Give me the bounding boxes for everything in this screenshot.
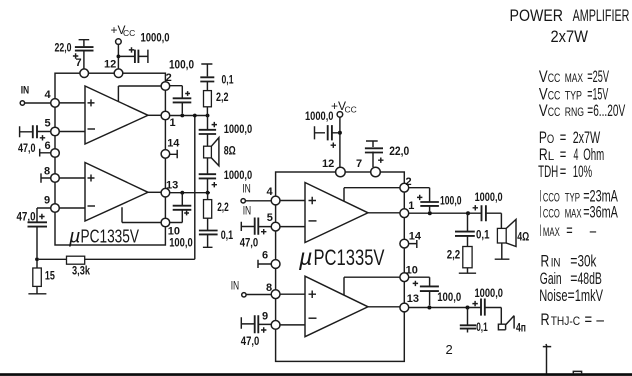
wire A4 output to pin13 xyxy=(368,306,400,308)
svg-text:CC: CC xyxy=(548,105,561,119)
svg-text:12: 12 xyxy=(322,158,334,170)
svg-text:1000,0: 1000,0 xyxy=(224,124,253,136)
svg-text:CC: CC xyxy=(345,104,357,114)
capacitor C6 0,1 zobel top xyxy=(201,64,212,91)
svg-text:=: = xyxy=(566,221,572,240)
capacitor C7 1000,0 output top xyxy=(207,116,209,147)
capacitor C17 1000,0 output R upper xyxy=(468,213,501,228)
pin 1 R xyxy=(400,209,409,218)
svg-text:47,0: 47,0 xyxy=(240,238,259,250)
svg-text:0,1: 0,1 xyxy=(221,230,234,242)
node dot pin1-cap xyxy=(180,114,184,118)
node junction dot on Vcc wire xyxy=(117,55,121,59)
A3 plus input mark xyxy=(309,197,317,204)
node dot pin1-cap R xyxy=(428,211,432,215)
pin 4 R xyxy=(271,196,280,205)
svg-text:µ: µ xyxy=(298,244,312,270)
label spec Icco max xyxy=(540,203,619,222)
svg-text:L: L xyxy=(548,149,555,163)
node dot pin13-zobel xyxy=(206,191,210,195)
resistor R3 2,2 zobel top xyxy=(204,91,212,107)
node dot pin1-zobel R xyxy=(466,211,470,215)
label spec Rthj-c xyxy=(541,310,605,329)
svg-text:100,0: 100,0 xyxy=(440,195,462,207)
svg-text:10%: 10% xyxy=(573,162,592,181)
svg-text:2,2: 2,2 xyxy=(217,202,229,214)
capacitor C12 47,0 at pin9 R xyxy=(241,317,271,329)
svg-text:22,0: 22,0 xyxy=(55,42,72,54)
svg-text:7: 7 xyxy=(356,158,362,170)
wire pin9 to A2 - xyxy=(59,207,85,209)
svg-text:=: = xyxy=(568,286,575,305)
capacitor C16 0,1 zobel R upper xyxy=(467,213,469,246)
pin 13 R xyxy=(400,303,409,312)
label spec RL xyxy=(539,145,604,164)
svg-text:Noise: Noise xyxy=(539,286,567,305)
A1 minus input mark xyxy=(88,128,96,130)
op-amp U1 (µPC1335V #1) chip outline xyxy=(55,73,165,245)
wire pin1 output row xyxy=(170,115,210,117)
svg-text:I: I xyxy=(540,221,542,240)
wire +Vcc to pin12 R xyxy=(339,117,341,167)
svg-text:2x7W: 2x7W xyxy=(551,27,589,46)
svg-text:IN: IN xyxy=(243,205,252,217)
A4 plus input mark xyxy=(309,291,317,299)
svg-text:5: 5 xyxy=(267,212,273,224)
capacitor C13 1000,0 at Vcc R xyxy=(315,126,340,139)
svg-text:5: 5 xyxy=(45,118,51,130)
A4 minus input mark xyxy=(309,317,317,319)
pin 10 R xyxy=(400,273,409,282)
svg-text:22,0: 22,0 xyxy=(389,146,409,158)
op-amp A3 upper triangle xyxy=(305,183,368,243)
svg-text:TYP: TYP xyxy=(565,190,580,204)
node +Vcc supply terminal xyxy=(116,39,122,45)
label spec TDH xyxy=(538,162,592,181)
pin 6 xyxy=(51,149,60,158)
node IN terminal upper xyxy=(241,199,245,203)
wire IN to pin4 xyxy=(25,102,51,104)
pin 13 xyxy=(161,188,170,197)
resistor R2 3,3k horizontal xyxy=(39,258,67,260)
wire antenna mark bottom right xyxy=(543,344,551,374)
pin 6 open stub xyxy=(40,149,51,157)
pin 8 open stub xyxy=(41,173,51,182)
svg-text:30k: 30k xyxy=(578,251,597,270)
resistor R1 15 vertical xyxy=(36,259,38,268)
capacitor C11 47,0 at pin5 R xyxy=(241,222,271,231)
A2 plus input mark xyxy=(88,175,95,182)
svg-text:9: 9 xyxy=(44,195,50,207)
wire pin8 to A2 + xyxy=(59,177,85,179)
wire pin13 output row xyxy=(170,192,210,194)
pin 12 R xyxy=(336,167,346,177)
speaker LS2 4 ohm xyxy=(497,228,506,243)
svg-text:I: I xyxy=(540,203,542,222)
wire IN to pin4 xyxy=(245,200,271,202)
node +Vcc supply terminal R xyxy=(337,112,343,118)
node IN input terminal left xyxy=(20,101,24,105)
svg-text:1000,0: 1000,0 xyxy=(141,32,170,44)
pin 6 R xyxy=(271,260,280,269)
capacitor C20 1000,0 output R lower xyxy=(469,308,502,325)
svg-text:1mkV: 1mkV xyxy=(575,286,604,305)
pin 8 R xyxy=(271,290,280,299)
svg-text:CCO: CCO xyxy=(543,207,560,221)
node junction dot bottom left xyxy=(35,257,39,261)
node dot pin13-zobel R xyxy=(466,306,470,310)
wire pin8 to A4 + xyxy=(280,293,305,295)
pin 14 open stub xyxy=(170,150,177,159)
svg-text:0,1: 0,1 xyxy=(222,74,234,86)
svg-text:8: 8 xyxy=(44,166,50,178)
pin 14 xyxy=(161,150,170,159)
svg-text:Gain: Gain xyxy=(540,269,562,288)
svg-text:IN: IN xyxy=(551,255,561,269)
op-amp A1 upper triangle xyxy=(85,86,148,144)
svg-text:100,0: 100,0 xyxy=(169,237,193,249)
svg-text:1: 1 xyxy=(408,200,414,212)
svg-text:RNG: RNG xyxy=(565,105,584,119)
svg-text:14: 14 xyxy=(409,231,422,243)
svg-text:THJ-C: THJ-C xyxy=(551,314,581,328)
svg-text:10: 10 xyxy=(168,226,180,238)
svg-text:4п: 4п xyxy=(516,323,526,335)
svg-text:PC1335V: PC1335V xyxy=(314,245,385,270)
bottom black bar xyxy=(0,373,632,376)
label spec Gain xyxy=(540,269,602,288)
pin 7 R xyxy=(371,167,381,177)
svg-text:=25V: =25V xyxy=(587,67,609,86)
label spec Imax xyxy=(540,221,597,240)
label spec Icco typ xyxy=(540,186,619,205)
label spec Vcc rng xyxy=(539,101,626,120)
capacitor C18 100,0 pin10 to pin13 R xyxy=(409,277,430,305)
svg-text:47,0: 47,0 xyxy=(17,211,36,223)
capacitor C19 0,1 zobel R lower xyxy=(467,308,469,333)
wire A1 output to pin1 xyxy=(148,114,161,116)
svg-text:MAX: MAX xyxy=(565,71,583,85)
pin 4 xyxy=(51,99,60,108)
label spec Rin xyxy=(541,251,597,270)
svg-text:0,1: 0,1 xyxy=(476,229,490,241)
svg-text:CC: CC xyxy=(548,89,561,103)
svg-text:1: 1 xyxy=(170,117,176,129)
svg-text:2,2: 2,2 xyxy=(447,249,461,261)
label spec Po xyxy=(539,128,600,147)
resistor R4 2,2 zobel bottom xyxy=(207,193,209,201)
svg-text:=: = xyxy=(570,269,577,288)
pin 2 R xyxy=(400,183,409,192)
svg-text:3,3k: 3,3k xyxy=(72,266,90,278)
svg-text:PC1335V: PC1335V xyxy=(81,226,140,247)
svg-text:47,0: 47,0 xyxy=(241,336,259,348)
svg-text:CC: CC xyxy=(123,28,135,38)
wire bottom rail to vertical riser xyxy=(85,116,195,260)
pin 7 xyxy=(80,69,89,78)
svg-text:6: 6 xyxy=(45,140,51,152)
node dot pin1-zobel xyxy=(206,114,210,118)
svg-text:=: = xyxy=(570,251,577,270)
op-amp U2 (µPC1335V #2) chip outline xyxy=(276,172,405,361)
pin 5 xyxy=(51,127,60,136)
capacitor C5 100,0 pin2 to pin1 xyxy=(170,86,183,114)
svg-text:IN: IN xyxy=(21,85,30,97)
pin 6 R open stub xyxy=(258,260,271,268)
svg-text:13: 13 xyxy=(166,179,178,191)
label spec Vcc max xyxy=(539,67,610,86)
svg-text:=36mA: =36mA xyxy=(583,203,618,222)
svg-text:10: 10 xyxy=(406,264,418,276)
svg-text:8: 8 xyxy=(266,282,272,294)
svg-text:R: R xyxy=(541,310,550,329)
svg-text:4: 4 xyxy=(45,89,52,101)
node dot pin13-cap R xyxy=(427,306,431,310)
wire A3 output to pin1 xyxy=(368,212,400,214)
svg-text:1000,0: 1000,0 xyxy=(475,288,504,300)
wire pin13 output row R xyxy=(409,307,469,309)
wire pin5 to A1 - xyxy=(59,131,85,133)
svg-text:100,0: 100,0 xyxy=(169,60,194,72)
svg-text:CC: CC xyxy=(548,71,561,85)
speaker LS1 8 ohm xyxy=(204,146,212,158)
svg-text:4Ω: 4Ω xyxy=(517,231,529,243)
capacitor C4 1000,0 at Vcc xyxy=(118,50,148,63)
capacitor C15 100,0 pin2 to pin1 R xyxy=(409,188,430,212)
capacitor C8 1000,0 output bottom xyxy=(207,158,209,193)
A2 minus input mark xyxy=(88,205,96,207)
resistor R5 2,2 zobel R upper xyxy=(463,247,472,268)
svg-text:TYP: TYP xyxy=(565,89,582,103)
svg-text:CCO: CCO xyxy=(543,190,560,204)
svg-text:1000,0: 1000,0 xyxy=(224,170,253,182)
svg-text:1000,0: 1000,0 xyxy=(475,192,503,204)
pin 14 R xyxy=(400,239,409,248)
capacitor C1 47,0 at pin5 xyxy=(20,126,51,137)
capacitor C14 22,0 at pin7 R xyxy=(366,141,378,167)
capacitor C10 0,1 zobel bottom xyxy=(203,218,213,247)
svg-text:47,0: 47,0 xyxy=(18,143,36,155)
svg-text:=6...20V: =6...20V xyxy=(587,101,625,120)
svg-text:AMPLIFIER: AMPLIFIER xyxy=(573,6,630,25)
wire pin4 to A3 + xyxy=(280,200,305,202)
wire A2 output to pin13 xyxy=(148,191,161,193)
node IN terminal lower xyxy=(242,293,246,297)
svg-text:12: 12 xyxy=(104,59,116,71)
node dot pin13-cap xyxy=(180,191,184,195)
wire pin9 to A4 - xyxy=(280,324,305,326)
svg-text:0,1: 0,1 xyxy=(476,322,488,334)
label spec Noise xyxy=(539,286,603,305)
wire +Vcc to pin12 xyxy=(117,44,119,69)
svg-text:=: = xyxy=(585,310,593,329)
wire pin4 to A1 + xyxy=(59,102,85,104)
svg-text:–: – xyxy=(596,310,604,329)
svg-text:IN: IN xyxy=(231,280,240,292)
svg-text:6: 6 xyxy=(262,249,268,261)
capacitor C2 47,0 at pin9 xyxy=(37,208,51,257)
svg-text:POWER: POWER xyxy=(510,6,564,25)
svg-text:MAX: MAX xyxy=(565,207,582,221)
wire pin2 feedback to A3 xyxy=(344,188,400,202)
pin 5 R xyxy=(271,222,280,231)
pin 8 xyxy=(51,174,60,183)
svg-text:R: R xyxy=(541,251,550,270)
pin 9 R xyxy=(271,321,280,330)
op-amp A4 lower triangle xyxy=(305,276,368,337)
node junction dot Vcc R xyxy=(338,131,342,135)
svg-text:2,2: 2,2 xyxy=(216,92,229,104)
svg-text:TDH: TDH xyxy=(538,162,558,181)
svg-text:MAX: MAX xyxy=(543,225,560,239)
svg-text:O: O xyxy=(547,132,554,146)
wire pin5 to A3 - xyxy=(280,226,305,228)
svg-text:1000,0: 1000,0 xyxy=(305,111,334,123)
pin 10 xyxy=(161,218,170,227)
wire pin10 feedback to A4 xyxy=(344,277,400,295)
svg-text:2: 2 xyxy=(166,72,172,84)
svg-text:48dB: 48dB xyxy=(578,269,602,288)
svg-text:2: 2 xyxy=(446,342,453,357)
speaker LS3 4 ohm partial xyxy=(498,316,514,330)
svg-text:2: 2 xyxy=(406,176,412,188)
pin 12 xyxy=(114,69,123,78)
small rect on bottom bar xyxy=(573,371,581,373)
label spec Vcc typ xyxy=(539,85,609,104)
svg-text:8Ω: 8Ω xyxy=(224,145,236,157)
node dot pin1-riser xyxy=(193,114,197,118)
pin 1 xyxy=(161,111,170,120)
svg-text:IN: IN xyxy=(242,184,251,196)
wire IN to pin8 xyxy=(246,294,271,296)
svg-text:7: 7 xyxy=(76,57,82,69)
pin 14 R open stub xyxy=(409,240,417,248)
svg-text:100,0: 100,0 xyxy=(437,292,461,304)
svg-text:15: 15 xyxy=(45,271,55,283)
svg-text:µ: µ xyxy=(68,226,81,248)
svg-text:14: 14 xyxy=(167,137,180,149)
pin 2 xyxy=(161,82,170,91)
A1 plus input mark xyxy=(88,99,95,106)
capacitor C9 100,0 pin13 to pin10 xyxy=(170,193,183,223)
pin 9 xyxy=(51,204,60,213)
svg-text:4: 4 xyxy=(267,186,274,198)
svg-text:–: – xyxy=(590,221,597,240)
op-amp A2 lower triangle xyxy=(85,163,148,222)
wire pin1 output row R xyxy=(409,212,468,214)
svg-text:13: 13 xyxy=(407,293,419,305)
A3 minus input mark xyxy=(309,220,317,222)
wire pin2 feedback to A1 xyxy=(118,86,161,101)
svg-text:=: = xyxy=(560,162,567,181)
wire pin10 feedback to A2 xyxy=(122,207,161,222)
capacitor C3 22,0 at pin7 xyxy=(79,40,90,69)
svg-text:9: 9 xyxy=(262,310,268,322)
